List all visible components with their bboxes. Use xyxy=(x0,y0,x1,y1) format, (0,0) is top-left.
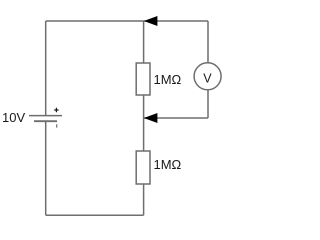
wire: voltmeter middle horizontal (node to right branch) xyxy=(144,117,208,119)
voltmeter U1 body xyxy=(194,63,221,90)
battery V1 long plate (+) xyxy=(29,115,62,117)
svg-text:1MΩ: 1MΩ xyxy=(154,72,182,87)
battery minus tick xyxy=(56,124,58,127)
arrowhead: voltmeter probe at top node xyxy=(144,16,158,26)
battery plus sign xyxy=(54,108,58,112)
wire: middle branch vertical (R2 to bottom rail) xyxy=(143,184,145,215)
wire: left vertical (top section, from top rail to battery +) xyxy=(45,21,47,116)
svg-text:10V: 10V xyxy=(2,110,25,125)
svg-text:V: V xyxy=(203,71,212,85)
arrowhead: voltmeter probe at middle node xyxy=(144,113,158,123)
svg-text:1MΩ: 1MΩ xyxy=(154,157,182,172)
wire: top horizontal rail xyxy=(46,20,208,22)
wire: right vertical (voltmeter to middle wire) xyxy=(207,90,209,118)
resistor R1 (top 1M ohm) body xyxy=(136,63,150,95)
wire: left vertical (bottom section, from battery - to bottom rail) xyxy=(45,121,47,215)
battery V1 short plate (-) xyxy=(34,120,57,122)
resistor R2 (bottom 1M ohm) body xyxy=(136,151,150,184)
wire: middle branch vertical (top rail to R1) xyxy=(143,21,145,63)
wire: bottom horizontal rail xyxy=(46,214,144,216)
wire: middle branch vertical (R1 to R2 through node) xyxy=(143,95,145,151)
wire: right vertical (top rail to voltmeter) xyxy=(207,21,209,63)
